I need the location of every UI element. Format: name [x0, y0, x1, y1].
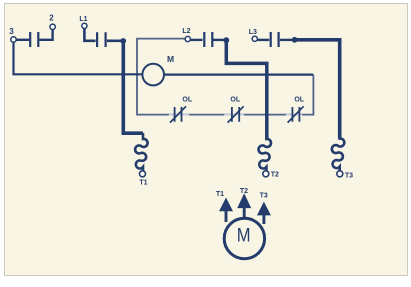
svg-text:M: M — [167, 54, 174, 64]
svg-text:OL: OL — [182, 97, 192, 104]
svg-text:T2: T2 — [271, 172, 279, 179]
svg-text:3: 3 — [9, 27, 14, 36]
svg-text:L3: L3 — [249, 29, 257, 36]
svg-text:OL: OL — [294, 97, 304, 104]
svg-text:2: 2 — [49, 14, 54, 23]
svg-text:M: M — [237, 225, 251, 246]
svg-text:OL: OL — [230, 97, 240, 104]
svg-text:L1: L1 — [79, 16, 87, 23]
svg-text:T1: T1 — [216, 191, 224, 198]
svg-text:T2: T2 — [240, 188, 248, 195]
svg-text:T3: T3 — [260, 193, 268, 200]
svg-text:T1: T1 — [139, 180, 147, 187]
svg-text:L2: L2 — [182, 28, 190, 35]
svg-text:T3: T3 — [345, 173, 353, 180]
